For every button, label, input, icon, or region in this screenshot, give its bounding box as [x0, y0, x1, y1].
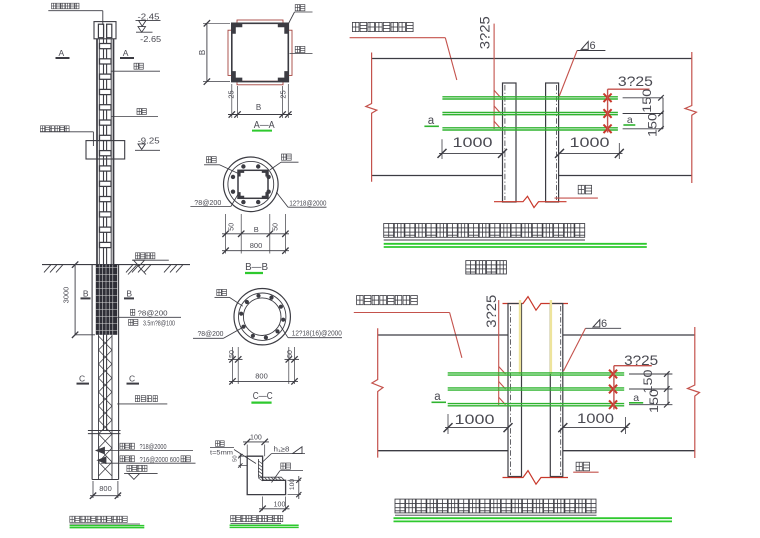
- column right chord (detail 2): [550, 304, 563, 477]
- A-A bottom dimensions 25 B 25: [231, 84, 233, 118]
- red right leader vertical (detail 1): [607, 89, 609, 132]
- svg-text:150: 150: [646, 113, 660, 137]
- svg-text:800: 800: [250, 241, 263, 250]
- svg-text:3?25: 3?25: [624, 353, 658, 368]
- B-B pile outer circles: [224, 157, 279, 212]
- label: first-layer concrete support (top leader): [52, 3, 80, 9]
- red leader horizontal under 3?25 (detail 1): [608, 88, 650, 90]
- pile bottom edge: [92, 479, 119, 481]
- svg-text:B: B: [198, 50, 207, 55]
- red leader hooks left (detail 2): [498, 300, 500, 405]
- A-A leader: batten label: [290, 53, 313, 55]
- column left chord (detail 2): [508, 304, 522, 477]
- title: first layer support beam to column connection detail: [384, 224, 585, 238]
- second support beam box: [86, 141, 125, 159]
- elevation marker -2.65: [138, 27, 146, 33]
- batten plates on lattice column: [100, 44, 112, 248]
- construction joint double line in pile: [88, 430, 121, 432]
- A-A left dimension B: [203, 22, 230, 24]
- column left chord (detail 1): [503, 83, 517, 202]
- svg-text:?8@200: ?8@200: [194, 200, 221, 207]
- svg-text:?16@2000 600: ?16@2000 600: [140, 457, 180, 464]
- beam right break line (red zigzag, detail 1): [685, 52, 696, 183]
- svg-text:C—C: C—C: [253, 390, 273, 402]
- corner angle steels of A-A: [232, 23, 288, 81]
- svg-text:?18@2000: ?18@2000: [140, 444, 167, 451]
- svg-text:1000: 1000: [577, 411, 614, 426]
- title: angle to batten connection detail: [231, 515, 283, 521]
- C-C pile circles: [234, 289, 290, 345]
- subtitle: non-trestle zone: [466, 261, 507, 274]
- title: column and column-pile construction detail: [70, 516, 128, 522]
- weld mark 6 (detail 2): [593, 320, 600, 327]
- column right chord (detail 1): [546, 83, 559, 202]
- red right leader vertical (detail 2): [613, 366, 615, 410]
- svg-text:h₁≥8: h₁≥8: [274, 447, 290, 454]
- label: natural ground with level symbol: [136, 253, 155, 259]
- dimension 1000 1000 (detail 1): [441, 139, 443, 159]
- label: li zhu (column) detail 2: [576, 462, 589, 471]
- svg-text:50: 50: [229, 350, 236, 358]
- svg-text:50: 50: [287, 350, 294, 358]
- svg-text:50: 50: [273, 223, 280, 231]
- svg-text:C: C: [79, 374, 85, 384]
- dimension 3000 (pile head reinforcement zone): [74, 265, 76, 335]
- svg-text:B: B: [83, 289, 89, 299]
- B-B leader: batten top-left: [207, 157, 217, 163]
- beam right break line (red zigzag, detail 2): [688, 327, 700, 458]
- dimension chain 150/150 (detail 1): [623, 97, 663, 99]
- pile head dense reinforcement hatch: [96, 265, 118, 335]
- angle-batten detail: top dimension 100: [246, 445, 248, 457]
- support bars 3?25 green lines (detail 1): [442, 97, 618, 130]
- label: reinforced concrete support beam (bottom-left, red leader): [357, 296, 418, 305]
- svg-text:800: 800: [255, 371, 268, 380]
- label: batten t=5mm: [216, 441, 225, 447]
- svg-text:A: A: [59, 48, 65, 58]
- svg-text:12?18(16)@2000: 12?18(16)@2000: [292, 330, 342, 337]
- svg-text:A—A: A—A: [254, 119, 275, 131]
- dimension chain 150/150 (detail 2): [629, 373, 672, 375]
- svg-text:B: B: [126, 289, 132, 299]
- svg-text:1000: 1000: [455, 412, 495, 427]
- label: second-layer concrete support (left leader): [41, 126, 70, 132]
- beam top edge line (detail 1): [372, 58, 692, 60]
- beam top edge line (detail 2): [378, 334, 508, 336]
- pile shaft outline below ground: [91, 265, 93, 480]
- dimension 800 at pile bottom: [92, 481, 94, 498]
- svg-text:25: 25: [227, 90, 236, 98]
- svg-text:3?25: 3?25: [484, 295, 499, 328]
- label: li zhu (column) detail 1: [578, 185, 591, 194]
- C-C rebar dots: [239, 294, 285, 340]
- svg-text:?8@200: ?8@200: [198, 331, 224, 338]
- svg-text:?8@200: ?8@200: [138, 311, 168, 318]
- channel chord tops inside box: [98, 24, 103, 38]
- label: stiffener hoop ?16@2000 600 weld with arrow: [98, 457, 107, 464]
- svg-text:25: 25: [279, 90, 288, 98]
- steel lattice column chords (elevation): [96, 39, 98, 265]
- svg-text:12?18@2000: 12?18@2000: [289, 201, 326, 208]
- C-C leader: main bars top-left: [217, 289, 227, 295]
- C-C dimensions 50 50 and 800: [232, 347, 234, 384]
- pile spiral reinforcement zone: [98, 335, 100, 480]
- label: spiral hoop: [135, 396, 157, 402]
- svg-text:t=5mm: t=5mm: [210, 449, 233, 456]
- svg-text:50: 50: [233, 455, 239, 461]
- section A-A square column outline: [232, 23, 288, 81]
- svg-text:3?25: 3?25: [478, 16, 493, 49]
- batten plate with weld hatch inside angle: [258, 459, 281, 477]
- beam bottom edge line (detail 2): [378, 450, 508, 452]
- column top break line (red, detail 2): [503, 297, 569, 311]
- ground hatch marks: [44, 265, 183, 275]
- svg-text:B—B: B—B: [245, 261, 268, 273]
- angle steel L-profile: [247, 456, 285, 494]
- svg-text:150: 150: [647, 389, 661, 413]
- bottom dimension 100: [262, 497, 264, 511]
- svg-text:C: C: [129, 374, 135, 384]
- svg-text:a: a: [434, 391, 441, 403]
- first support beam box at column top: [94, 22, 116, 39]
- weld mark 6 (detail 1): [581, 42, 588, 50]
- right dimension 100: [288, 479, 302, 481]
- label: stiffener hoop ?18@2000 with arrow: [96, 447, 105, 454]
- red batten plates around A-A: [237, 20, 283, 24]
- svg-text:100: 100: [289, 479, 296, 491]
- svg-text:3?25: 3?25: [618, 74, 653, 89]
- B-B embedded square column: [238, 170, 268, 198]
- beam left break line (red zigzag, detail 1): [366, 53, 377, 182]
- red bar-end cross marks (detail 2): [609, 370, 617, 409]
- svg-text:800: 800: [99, 484, 112, 493]
- red leader horizontal under 3?25 (detail 2): [614, 365, 652, 367]
- svg-text:100: 100: [250, 434, 262, 441]
- A-A leader: angle steel label: [288, 12, 295, 25]
- svg-text:3.5m?8@100: 3.5m?8@100: [143, 321, 175, 328]
- label: reinforced concrete support beam (top-left, red leader): [352, 22, 413, 31]
- B-B dimensions 50 B 50 and 800: [225, 214, 227, 254]
- yellow highlight bars in column (detail 2): [519, 300, 521, 374]
- column bottom break line (red, detail 1): [494, 196, 567, 207]
- svg-text:1000: 1000: [453, 135, 493, 150]
- svg-text:1000: 1000: [570, 135, 610, 150]
- label: batten plate (right leader): [134, 63, 143, 69]
- label: angle steel (right leader): [137, 109, 146, 115]
- ground line: [42, 264, 190, 266]
- red bar-end cross marks (detail 1): [604, 94, 612, 134]
- svg-text:a: a: [428, 115, 435, 127]
- column bottom break line (red, detail 2): [503, 471, 569, 485]
- svg-text:50: 50: [228, 223, 235, 231]
- title: second layer support beam to column connection detail: [395, 499, 596, 513]
- red leader for 3?25 left hooks (detail 1): [493, 24, 495, 129]
- svg-text:B: B: [254, 225, 259, 234]
- svg-text:A: A: [123, 48, 129, 58]
- svg-text:B: B: [256, 103, 261, 112]
- svg-text:150: 150: [640, 88, 654, 112]
- beam bottom edge line (detail 1): [372, 175, 503, 177]
- svg-text:100: 100: [274, 501, 286, 508]
- B-B rebar dots: [231, 164, 271, 204]
- left small dimension 50: [239, 455, 248, 457]
- label: pile bottom level with symbol: [127, 465, 147, 471]
- B-B leader: angle steel top-right: [282, 154, 292, 160]
- svg-text:-2.65: -2.65: [140, 35, 162, 44]
- dimension 1000 1000 (detail 2): [447, 414, 449, 434]
- svg-text:3000: 3000: [62, 287, 71, 304]
- label: angle steel with leader: [281, 463, 291, 469]
- beam left break line (red zigzag, detail 2): [372, 328, 383, 457]
- support bars 3?25 green lines (detail 2): [448, 373, 625, 406]
